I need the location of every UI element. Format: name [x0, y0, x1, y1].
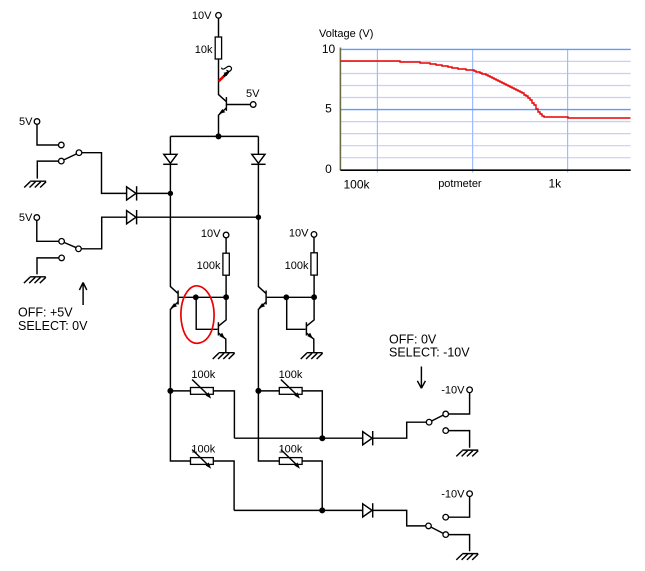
svg-text:100k: 100k: [344, 177, 371, 191]
svg-text:5V: 5V: [246, 88, 260, 100]
svg-text:100k: 100k: [191, 369, 215, 381]
svg-text:5V: 5V: [19, 116, 33, 128]
svg-text:SELECT: 0V: SELECT: 0V: [18, 319, 88, 333]
svg-text:5V: 5V: [19, 212, 33, 224]
svg-text:10: 10: [322, 42, 336, 56]
svg-text:Voltage (V): Voltage (V): [319, 28, 373, 40]
svg-text:10V: 10V: [201, 228, 221, 240]
svg-text:10V: 10V: [289, 228, 309, 240]
svg-text:OFF: 0V: OFF: 0V: [389, 332, 437, 346]
svg-text:100k: 100k: [279, 444, 303, 456]
svg-text:OFF: +5V: OFF: +5V: [18, 305, 73, 319]
svg-text:100k: 100k: [191, 444, 215, 456]
svg-text:-10V: -10V: [441, 385, 465, 397]
svg-text:100k: 100k: [197, 260, 221, 272]
svg-text:0: 0: [325, 162, 332, 176]
svg-text:10k: 10k: [195, 44, 213, 56]
svg-text:100k: 100k: [279, 369, 303, 381]
svg-text:1k: 1k: [549, 177, 563, 191]
svg-text:5: 5: [325, 101, 332, 115]
svg-text:potmeter: potmeter: [438, 178, 482, 190]
svg-text:SELECT: -10V: SELECT: -10V: [389, 345, 470, 359]
svg-text:10V: 10V: [192, 10, 212, 22]
svg-text:100k: 100k: [285, 260, 309, 272]
svg-text:-10V: -10V: [441, 489, 465, 501]
